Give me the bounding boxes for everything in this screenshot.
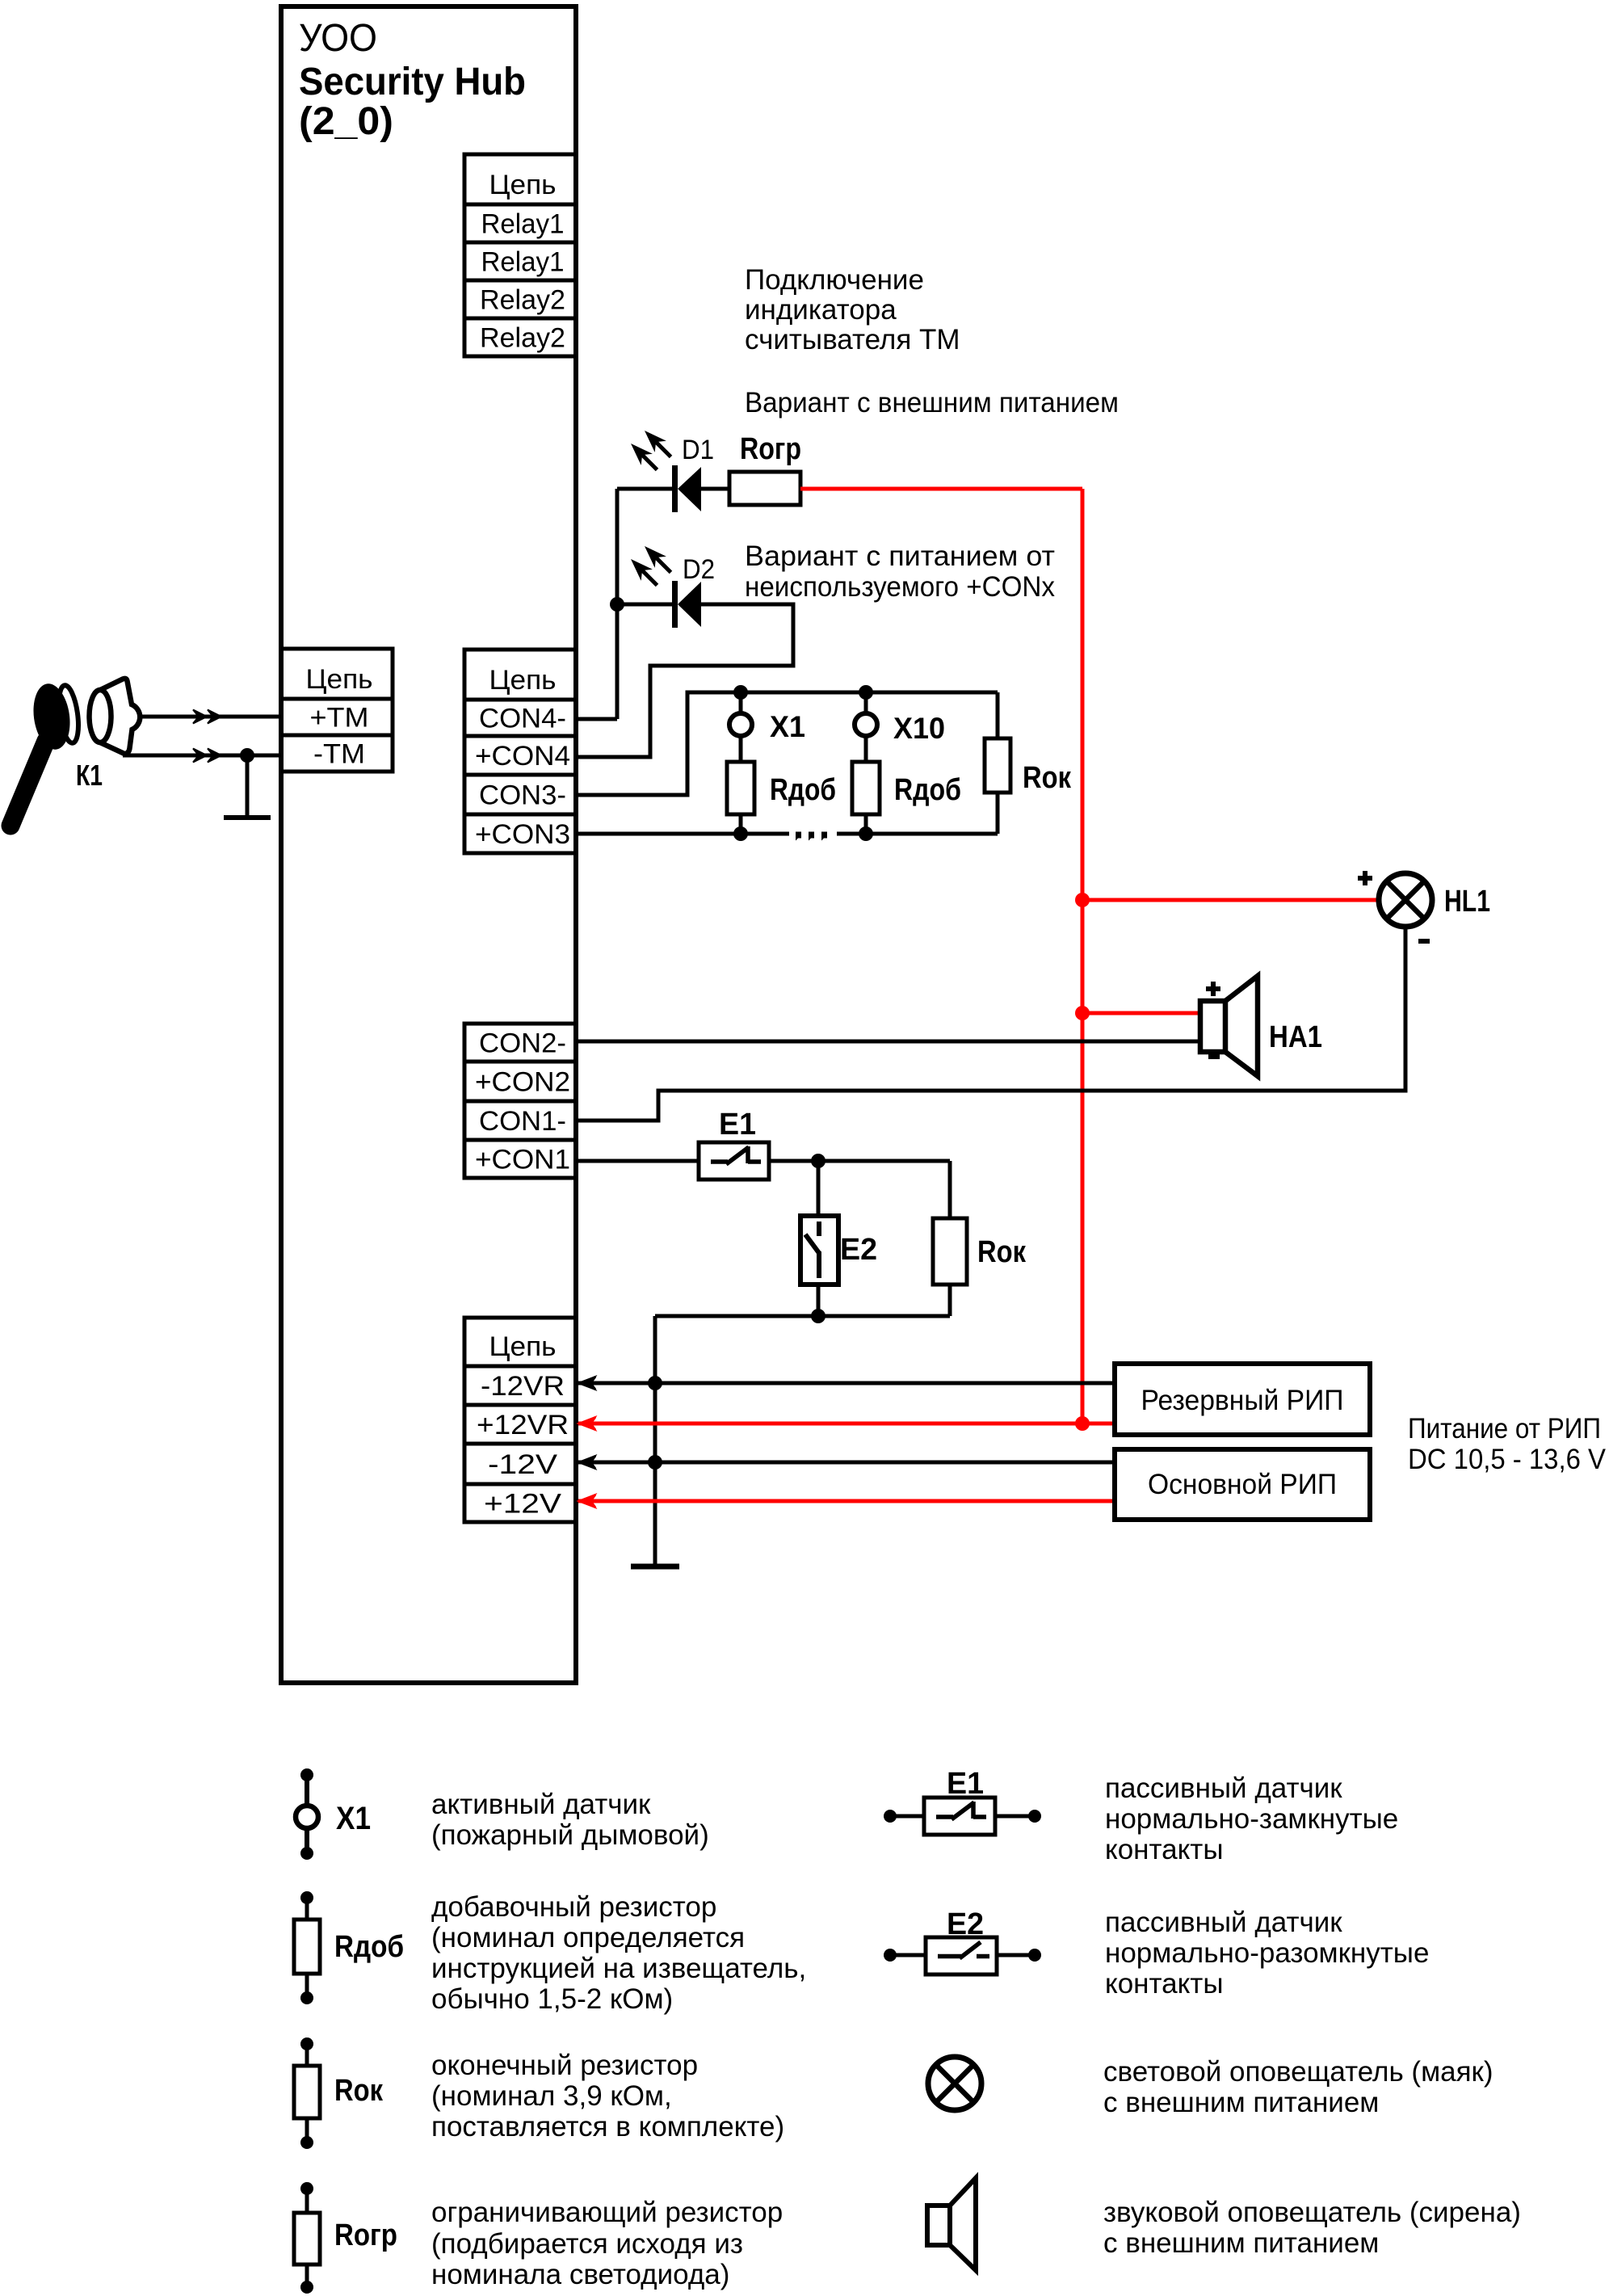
svg-text:+12V: +12V bbox=[484, 1489, 561, 1520]
svg-text:активный датчик: активный датчик bbox=[431, 1789, 651, 1820]
svg-text:(пожарный дымовой): (пожарный дымовой) bbox=[431, 1819, 709, 1851]
svg-text:Вариант с питанием от: Вариант с питанием от bbox=[745, 540, 1055, 572]
svg-text:пассивный датчик: пассивный датчик bbox=[1105, 1772, 1342, 1804]
svg-text:световой оповещатель (маяк): световой оповещатель (маяк) bbox=[1103, 2056, 1493, 2088]
svg-text:Цепь: Цепь bbox=[489, 665, 557, 696]
svg-text:(номинал определяется: (номинал определяется bbox=[431, 1922, 745, 1953]
svg-text:ограничивающий резистор: ограничивающий резистор bbox=[431, 2197, 783, 2228]
svg-text:+ТМ: +ТМ bbox=[310, 703, 369, 734]
svg-text:+CON1: +CON1 bbox=[475, 1145, 570, 1175]
svg-text:К1: К1 bbox=[76, 759, 103, 792]
svg-text:оконечный резистор: оконечный резистор bbox=[431, 2050, 698, 2081]
svg-text:CON4-: CON4- bbox=[479, 704, 566, 734]
svg-text:Rогр: Rогр bbox=[740, 432, 801, 466]
svg-text:Rдоб: Rдоб bbox=[894, 773, 961, 807]
svg-text:Rок: Rок bbox=[1023, 761, 1072, 795]
svg-text:X1: X1 bbox=[770, 710, 805, 743]
svg-text:Питание от РИП: Питание от РИП bbox=[1408, 1413, 1601, 1444]
svg-text:обычно 1,5-2 кОм): обычно 1,5-2 кОм) bbox=[431, 1983, 673, 2015]
svg-text:+CON3: +CON3 bbox=[475, 819, 570, 850]
svg-text:с внешним питанием: с внешним питанием bbox=[1103, 2227, 1379, 2259]
svg-text:Relay1: Relay1 bbox=[481, 247, 565, 278]
svg-text:Rогр: Rогр bbox=[334, 2218, 397, 2252]
svg-text:-ТМ: -ТМ bbox=[313, 739, 365, 770]
svg-text:поставляется в комплекте): поставляется в комплекте) bbox=[431, 2111, 784, 2143]
svg-text:УОО: УОО bbox=[299, 17, 377, 60]
svg-text:X1: X1 bbox=[336, 1801, 371, 1836]
svg-text:Rдоб: Rдоб bbox=[334, 1930, 404, 1964]
svg-text:контакты: контакты bbox=[1105, 1834, 1224, 1865]
svg-text:Security Hub: Security Hub bbox=[299, 61, 526, 103]
svg-text:D1: D1 bbox=[682, 435, 714, 465]
svg-text:Цепь: Цепь bbox=[489, 1331, 557, 1362]
svg-text:с внешним питанием: с внешним питанием bbox=[1103, 2087, 1379, 2118]
svg-text:Подключение: Подключение bbox=[745, 264, 924, 296]
svg-text:нормально-разомкнутые: нормально-разомкнутые bbox=[1105, 1937, 1429, 1969]
svg-text:нормально-замкнутые: нормально-замкнутые bbox=[1105, 1803, 1398, 1835]
svg-text:CON2-: CON2- bbox=[479, 1028, 566, 1059]
svg-text:Цепь: Цепь bbox=[489, 170, 557, 200]
svg-text:+CON4: +CON4 bbox=[475, 741, 570, 772]
svg-text:HL1: HL1 bbox=[1444, 885, 1490, 919]
svg-text:звуковой оповещатель (сирена): звуковой оповещатель (сирена) bbox=[1103, 2197, 1521, 2228]
svg-text:-12V: -12V bbox=[488, 1449, 557, 1480]
svg-text:CON1-: CON1- bbox=[479, 1106, 566, 1137]
svg-text:контакты: контакты bbox=[1105, 1968, 1224, 2000]
svg-text:добавочный резистор: добавочный резистор bbox=[431, 1891, 716, 1923]
svg-text:пассивный датчик: пассивный датчик bbox=[1105, 1907, 1342, 1938]
svg-text:Rдоб: Rдоб bbox=[770, 773, 836, 807]
svg-text:индикатора: индикатора bbox=[745, 294, 897, 326]
svg-text:номинала светодиода): номинала светодиода) bbox=[431, 2259, 729, 2290]
svg-text:Relay1: Relay1 bbox=[481, 209, 565, 240]
svg-text:E2: E2 bbox=[840, 1233, 877, 1267]
svg-text:считывателя ТМ: считывателя ТМ bbox=[745, 324, 960, 355]
svg-text:(2_0): (2_0) bbox=[299, 100, 393, 143]
svg-text:инструкцией на извещатель,: инструкцией на извещатель, bbox=[431, 1953, 806, 1984]
svg-text:неиспользуемого +CONx: неиспользуемого +CONx bbox=[745, 571, 1055, 603]
svg-text:-12VR: -12VR bbox=[481, 1371, 565, 1402]
svg-text:Цепь: Цепь bbox=[306, 664, 373, 695]
svg-text:Вариант с внешним питанием: Вариант с внешним питанием bbox=[745, 387, 1119, 418]
svg-text:E1: E1 bbox=[719, 1108, 756, 1142]
svg-text:+CON2: +CON2 bbox=[475, 1067, 570, 1098]
svg-text:Relay2: Relay2 bbox=[480, 323, 565, 354]
svg-text:+12VR: +12VR bbox=[477, 1410, 569, 1440]
svg-text:CON3-: CON3- bbox=[479, 780, 566, 811]
svg-text:Rок: Rок bbox=[977, 1235, 1027, 1269]
svg-text:X10: X10 bbox=[893, 712, 945, 745]
svg-text:Основной РИП: Основной РИП bbox=[1148, 1469, 1337, 1500]
svg-text:(номинал 3,9 кОм,: (номинал 3,9 кОм, bbox=[431, 2080, 672, 2112]
svg-text:Rок: Rок bbox=[334, 2074, 384, 2108]
svg-text:Relay2: Relay2 bbox=[480, 285, 565, 316]
svg-text:Резервный РИП: Резервный РИП bbox=[1141, 1385, 1344, 1416]
svg-text:D2: D2 bbox=[683, 554, 715, 585]
svg-text:(подбирается исходя из: (подбирается исходя из bbox=[431, 2228, 743, 2260]
svg-text:DC 10,5 - 13,6 V: DC 10,5 - 13,6 V bbox=[1408, 1444, 1607, 1475]
svg-text:HA1: HA1 bbox=[1269, 1020, 1322, 1054]
